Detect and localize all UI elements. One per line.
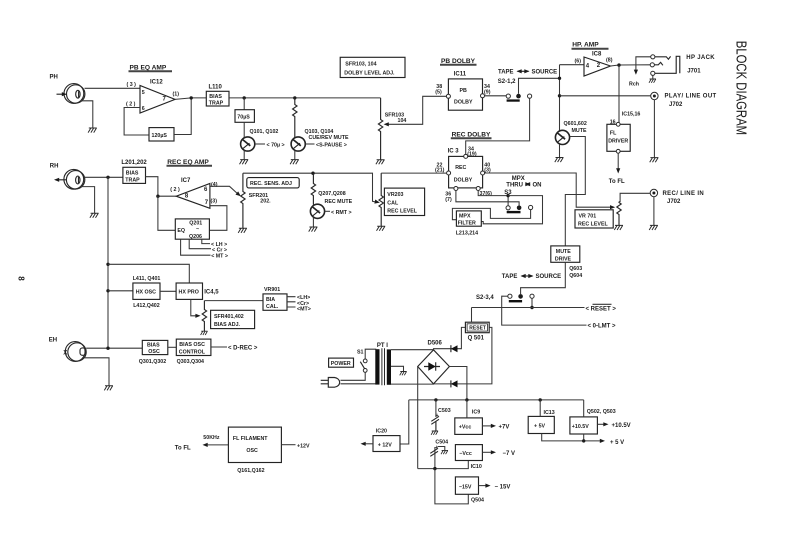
wire PT1 secondary center tap to ground — [391, 366, 404, 371]
transistor Q601 — [555, 130, 569, 144]
wire pin37 junction to MPX filter right — [481, 196, 542, 224]
svg-text:THRU: THRU — [506, 182, 523, 188]
svg-text:L411, Q401: L411, Q401 — [133, 276, 161, 282]
wire EH head to bias osc — [86, 347, 142, 349]
svg-text:< 70µ >: < 70µ > — [267, 143, 285, 149]
switch S1 — [363, 359, 367, 363]
transistor Q103 — [291, 137, 305, 151]
wire IC7 pin6 output to SFR201 wiper — [210, 186, 238, 193]
svg-text:BIAS OSC: BIAS OSC — [179, 342, 205, 348]
svg-text:OSC: OSC — [246, 448, 258, 454]
wire +10.5V bottom to +5V line — [583, 434, 585, 441]
svg-text:CAL.: CAL. — [266, 304, 279, 310]
wire to -15V regulator — [435, 469, 468, 504]
node IC9 — [465, 398, 468, 401]
svg-text:TRAP: TRAP — [209, 100, 224, 106]
svg-text:HX PRO: HX PRO — [179, 290, 199, 296]
svg-text:+10.5V: +10.5V — [612, 423, 631, 429]
potentiometer SFR401 — [202, 301, 206, 331]
svg-text:REC: REC — [455, 165, 466, 171]
ground under PLAY jack — [650, 158, 659, 163]
svg-text:+: + — [436, 413, 439, 419]
pin 36 IC3 — [454, 187, 458, 191]
svg-text:(19): (19) — [467, 151, 477, 157]
svg-text:( 2 ): ( 2 ) — [126, 102, 136, 108]
switch S2-1,2 — [506, 94, 510, 98]
svg-text:CUE/REV MUTE: CUE/REV MUTE — [309, 135, 349, 141]
HP jack ring lever — [655, 62, 663, 65]
svg-text:REC DOLBY: REC DOLBY — [452, 131, 491, 138]
ground under Q103 — [290, 160, 299, 165]
svg-text:< 0-LMT >: < 0-LMT > — [588, 324, 617, 330]
wire PT1 secondary top to bridge — [391, 349, 434, 351]
capacitor 120uS box — [149, 128, 174, 141]
transistor Q207 — [310, 204, 324, 218]
svg-text:−15V: −15V — [459, 484, 472, 490]
svg-text:IC13: IC13 — [544, 410, 555, 416]
svg-text:IC4,5: IC4,5 — [204, 289, 219, 295]
IC U IC11 PB DOLBY box — [448, 79, 482, 110]
svg-text:MUTE: MUTE — [572, 128, 587, 134]
svg-text:8: 8 — [17, 276, 26, 281]
wire PH head to IC12 input — [85, 87, 141, 89]
svg-text:Q601,602: Q601,602 — [564, 121, 587, 127]
ground under C503 — [431, 431, 438, 435]
wire Q103 output — [305, 143, 314, 145]
svg-text:TAPE: TAPE — [498, 70, 514, 76]
ground under HP jack — [652, 75, 654, 78]
svg-text:L213,214: L213,214 — [456, 231, 478, 237]
svg-text:PT I: PT I — [377, 343, 388, 349]
svg-text:Rch: Rch — [629, 81, 639, 87]
transformer PT1 — [375, 349, 379, 384]
diode inside bridge — [424, 362, 440, 370]
wire REC DOLBY pin40 to VR701 wiper — [485, 173, 612, 207]
svg-text:MUTE: MUTE — [556, 249, 571, 255]
IC MUTE DRIVE box — [551, 246, 580, 262]
wire IC12 inverting input feedback — [124, 108, 149, 136]
negative bus wire — [418, 461, 469, 469]
arrow +12V out — [365, 443, 374, 445]
svg-text:~: ~ — [196, 227, 199, 233]
arrow -15V — [479, 485, 487, 487]
svg-text:(7): (7) — [445, 197, 452, 203]
ground PT1 center tap — [400, 372, 407, 376]
svg-text:DRIVE: DRIVE — [555, 256, 572, 262]
svg-text:BIAS: BIAS — [126, 170, 139, 176]
node RH junction — [106, 176, 109, 179]
svg-text:MPX: MPX — [512, 176, 525, 182]
wire Q207 emitter to ground — [312, 218, 314, 227]
note box REC. SENS. ADJ — [247, 178, 299, 188]
wire bias trap to IC7 input — [146, 177, 177, 197]
svg-text:+ 5 V: + 5 V — [610, 440, 624, 446]
note box VR701 REC LEVEL — [575, 210, 613, 228]
svg-text:IC8: IC8 — [592, 52, 602, 58]
HP jack tip lever — [655, 56, 671, 59]
wire RH head to bias trap — [84, 176, 123, 178]
svg-text:EH: EH — [49, 337, 57, 343]
svg-text:J701: J701 — [687, 68, 701, 74]
wire IC12 output — [175, 98, 206, 100]
IC U FL DRIVER box — [607, 124, 630, 151]
wire SFR401 top to BIA CAL — [204, 300, 263, 302]
svg-text:Q303,Q304: Q303,Q304 — [177, 359, 204, 365]
ground under EH head — [104, 386, 113, 391]
bridge rectifier D506 — [418, 350, 450, 384]
svg-text:Q603: Q603 — [569, 266, 582, 272]
note box SFR103,104 DOLBY LEVEL ADJ. — [340, 57, 405, 77]
connector REC/LINE IN jack — [650, 189, 657, 196]
wire EH head to ground — [85, 358, 110, 386]
arrow +10.5V — [597, 423, 604, 425]
AC plug — [321, 378, 340, 388]
svg-text:HP JACK: HP JACK — [686, 55, 715, 61]
svg-text:L110: L110 — [209, 85, 223, 91]
wire bridge right vertex to rail — [449, 367, 467, 400]
oscillator FL FILAMENT OSC box — [228, 427, 281, 462]
svg-text:5: 5 — [142, 90, 145, 96]
wire control to D-REC — [211, 346, 227, 348]
svg-text:70µS: 70µS — [237, 115, 250, 121]
svg-text:HP. AMP: HP. AMP — [572, 42, 599, 49]
wire node to EQ box — [158, 196, 175, 230]
wire S1 to PT1 primary top — [365, 349, 376, 359]
svg-text:−7 V: −7 V — [503, 451, 516, 457]
wire REC bus left segment — [243, 173, 377, 202]
svg-text:Q101, Q102: Q101, Q102 — [250, 129, 279, 135]
arrow To FL — [617, 153, 619, 169]
wire VR203 top to REC DOLBY pin22 — [381, 172, 446, 174]
wire Q101 emitter to ground — [243, 151, 245, 160]
svg-text:< MT >: < MT > — [211, 254, 228, 260]
resistor above Q207 — [311, 173, 315, 204]
HP jack sleeve — [655, 56, 680, 73]
wire S2-1,2 right contact to REC DOLBY pin34 — [466, 98, 530, 154]
svg-text:SFR401,402: SFR401,402 — [214, 314, 244, 320]
arrow -7V — [482, 451, 492, 453]
svg-text:VR901: VR901 — [264, 287, 280, 293]
wire to PLAY/LINE OUT — [560, 95, 651, 97]
svg-text:BLOCK DIAGRAM: BLOCK DIAGRAM — [733, 41, 750, 135]
pin 37 IC3 — [476, 187, 480, 191]
pin 22 IC3 — [447, 171, 451, 175]
wire FL filament +12V — [281, 444, 295, 446]
svg-text:( 2 ): ( 2 ) — [170, 187, 180, 193]
wire Q103 emitter to ground — [294, 151, 296, 160]
svg-text:DOLBY: DOLBY — [454, 100, 473, 106]
wire Q207 output — [325, 210, 330, 212]
svg-text:POWER: POWER — [331, 361, 351, 367]
svg-text:Q502, Q503: Q502, Q503 — [587, 409, 616, 415]
ground under Q101 — [240, 160, 249, 165]
svg-text:(3): (3) — [211, 198, 218, 204]
wire HX OSC to HX PRO — [160, 290, 176, 292]
oscillator HX OSC box — [133, 283, 160, 299]
wire rail to +Vcc — [466, 400, 468, 418]
svg-text:BIAS ADJ.: BIAS ADJ. — [214, 322, 241, 328]
svg-text:BIA: BIA — [266, 297, 275, 303]
wire MUTE DRIVE to S2-3,4 pole — [521, 262, 566, 294]
node HX OSC branch — [106, 289, 109, 292]
potentiometer SFR103 — [378, 98, 382, 160]
svg-text:IC20: IC20 — [376, 429, 387, 435]
svg-text:FL FILAMENT: FL FILAMENT — [233, 436, 268, 442]
svg-text:DOLBY LEVEL ADJ.: DOLBY LEVEL ADJ. — [344, 70, 395, 76]
wire pin37 to S3 left contact — [478, 191, 508, 206]
svg-text:TRAP: TRAP — [125, 177, 140, 183]
ground under SFR201 — [238, 228, 247, 233]
node Q103 branch — [293, 96, 296, 99]
svg-text:L412,Q402: L412,Q402 — [133, 303, 160, 309]
wire 70uS to Q101 — [243, 122, 245, 137]
regulator +Vcc box — [455, 418, 483, 435]
wire vertical left bus — [107, 177, 109, 348]
svg-text:Q 501: Q 501 — [468, 336, 485, 342]
node play out branch — [558, 94, 561, 97]
svg-text:(5): (5) — [435, 90, 442, 96]
wire PH head to ground — [81, 101, 93, 128]
svg-text:DOLBY: DOLBY — [454, 178, 473, 184]
wire L110 output bus to SFR103 — [229, 97, 381, 99]
svg-text:Q604: Q604 — [569, 273, 582, 279]
wire plug to PT1 primary bottom — [341, 383, 377, 385]
wire pin34 to S2-1,2 — [485, 95, 507, 97]
label POWER — [329, 358, 354, 367]
potentiometer VR203 — [379, 173, 383, 226]
svg-text:+ 5V: + 5V — [534, 424, 546, 430]
wire BIAS OSC to control — [168, 346, 177, 348]
wire IC8 output — [611, 65, 653, 66]
svg-text:TAPE: TAPE — [502, 274, 518, 280]
regulator +5V box — [528, 416, 554, 433]
svg-text:IC15,16: IC15,16 — [622, 111, 641, 117]
wire Q101 output — [255, 143, 265, 145]
wire node to FL DRIVER — [618, 65, 620, 124]
node IC13 — [539, 398, 542, 401]
diode top D506a — [434, 327, 466, 349]
wire S2-1,2 pole to HP amp node — [519, 78, 560, 94]
svg-text:PH: PH — [50, 75, 58, 81]
ground under SFR103 — [376, 160, 385, 165]
wire to 70uS box — [243, 98, 245, 110]
svg-text:< RESET >: < RESET > — [586, 307, 617, 313]
wire pin36 to S3 pole — [456, 191, 519, 206]
svg-text:+ 12V: + 12V — [378, 442, 392, 448]
potentiometer VR701 — [617, 202, 621, 226]
svg-text:PB: PB — [460, 88, 468, 94]
svg-text:HX OSC: HX OSC — [136, 290, 156, 296]
svg-text:IC7: IC7 — [181, 178, 191, 184]
svg-text:X: X — [63, 351, 67, 357]
wire PT1 secondary bottom to bridge — [391, 383, 434, 385]
ground under Q601 — [555, 158, 564, 163]
svg-text:120µS: 120µS — [152, 133, 168, 139]
wiper wire PB DOLBY pin38 to SFR103 — [387, 96, 447, 124]
svg-text:BIAS: BIAS — [209, 94, 222, 100]
svg-text:< Cr >: < Cr > — [212, 247, 227, 253]
regulator -15V box — [455, 477, 478, 494]
EQ box Q201-Q206 — [175, 219, 209, 239]
svg-text:PLAY/ LINE OUT: PLAY/ LINE OUT — [665, 94, 717, 100]
node HX branch — [106, 263, 109, 266]
pin 34 IC3 — [464, 154, 468, 158]
svg-text:< RMT >: < RMT > — [331, 210, 352, 216]
switch S3 — [506, 206, 510, 210]
IC HX PRO box — [176, 283, 202, 299]
wire REC/LINE IN to ground — [653, 197, 655, 226]
svg-text:S2-1,2: S2-1,2 — [498, 79, 516, 85]
arrow FL filament out — [207, 444, 229, 446]
wire RESET box top to reset line — [471, 308, 473, 323]
svg-text:REC LEVEL: REC LEVEL — [578, 222, 608, 228]
svg-text:IC10: IC10 — [471, 464, 482, 470]
arrow into PH head — [57, 93, 64, 95]
wire REC/LINE IN to VR701 top — [619, 193, 650, 201]
regulator +12V box — [373, 436, 400, 452]
svg-text:(1): (1) — [173, 91, 180, 97]
wire EQ MT output — [181, 239, 211, 255]
svg-text:Q206: Q206 — [189, 234, 202, 240]
svg-text:+7V: +7V — [499, 425, 510, 431]
svg-text:(21): (21) — [435, 168, 445, 174]
wire vertical node bus — [559, 65, 561, 131]
wire RESET line — [472, 307, 585, 309]
svg-text:Q207,Q208: Q207,Q208 — [318, 191, 345, 197]
wire EQ Cr output — [189, 239, 211, 249]
svg-text:EQ: EQ — [177, 228, 185, 234]
ground under VR203 — [377, 226, 386, 231]
power rail — [400, 400, 584, 444]
svg-text:S1: S1 — [357, 349, 364, 355]
node C503 — [434, 398, 437, 401]
svg-text:FL: FL — [610, 131, 617, 137]
svg-text:(6): (6) — [575, 58, 582, 64]
wire IC7 pin7 output to EQ box — [209, 206, 227, 231]
regulator -Vcc box — [455, 445, 482, 461]
svg-text:CONTROL: CONTROL — [179, 349, 206, 355]
wire HX PRO to SFR401 wiper — [191, 299, 197, 315]
wire plug to S1 — [341, 372, 366, 380]
svg-text:50KHz: 50KHz — [203, 435, 220, 441]
ground under PH head — [88, 128, 97, 133]
filter MPX FILTER box — [456, 211, 481, 226]
node 70uS branch — [243, 96, 246, 99]
svg-text:BIAS: BIAS — [147, 343, 160, 349]
svg-text:<S-PAUSE >: <S-PAUSE > — [316, 143, 347, 149]
svg-text:CAL: CAL — [387, 200, 399, 206]
svg-text:+: + — [435, 445, 438, 451]
svg-text:RH: RH — [50, 163, 59, 169]
svg-text:6: 6 — [142, 106, 145, 112]
wire feedback from output to 120uS — [174, 98, 191, 135]
capacitor 70uS box — [235, 110, 254, 123]
svg-text:( 3 ): ( 3 ) — [127, 82, 137, 88]
ground under Q207 — [309, 227, 318, 232]
ground right of C504 — [441, 450, 448, 454]
ground under RH head — [90, 213, 99, 218]
potentiometer SFR201 — [241, 173, 245, 228]
arrow out of RH head — [58, 179, 67, 181]
svg-text:REC MUTE: REC MUTE — [325, 199, 353, 205]
arrow +7V — [482, 425, 492, 427]
wire +5V output — [542, 434, 601, 441]
svg-text:+12V: +12V — [297, 443, 310, 449]
svg-text:+10.5V: +10.5V — [572, 424, 589, 430]
svg-text:PB DOLBY: PB DOLBY — [441, 58, 476, 65]
svg-text:REC LEVEL: REC LEVEL — [387, 209, 417, 215]
pin 34 — [481, 94, 485, 98]
node S3 — [506, 194, 509, 197]
wire HP jack tip to Rch arrow — [636, 57, 651, 71]
node HP out — [617, 63, 620, 66]
node IC12 output junction — [190, 96, 193, 99]
svg-text:− 15V: − 15V — [495, 484, 511, 490]
ground under REC jack — [649, 225, 658, 230]
wire S3 right contact to MPX filter left — [452, 208, 530, 219]
node Q207 branch — [311, 172, 314, 175]
svg-text:REC/ LINE IN: REC/ LINE IN — [663, 191, 705, 197]
wire bus to HX PRO top — [108, 264, 189, 283]
svg-text:SOURCE: SOURCE — [532, 70, 558, 76]
wire EQ LH output — [202, 239, 210, 243]
wire Q601 emitter to ground — [559, 144, 561, 157]
svg-text:Q504: Q504 — [471, 497, 484, 503]
svg-text:SFR103, 104: SFR103, 104 — [345, 61, 376, 67]
wire rail to +5V — [539, 400, 541, 417]
svg-text:SOURCE: SOURCE — [536, 274, 562, 280]
svg-text:(9): (9) — [484, 90, 491, 96]
inductor L110 BIAS TRAP box — [206, 91, 229, 106]
svg-text:Q301,Q302: Q301,Q302 — [139, 359, 166, 365]
svg-text:DRIVER: DRIVER — [608, 139, 628, 145]
wire PLAY jack to ground — [653, 100, 655, 158]
note box VR203 CAL REC LEVEL — [384, 188, 424, 215]
svg-text:S2-3,4: S2-3,4 — [476, 295, 494, 301]
svg-text:J702: J702 — [669, 102, 683, 108]
transistor Q101 — [241, 137, 255, 151]
switch S2-3,4 — [504, 295, 508, 297]
svg-text:To FL: To FL — [175, 445, 191, 451]
capacitor C503 — [435, 400, 437, 417]
svg-text:To FL: To FL — [609, 179, 625, 185]
svg-text:Q161,Q162: Q161,Q162 — [237, 468, 264, 474]
node S2 to bus — [558, 77, 561, 80]
erase head EH — [65, 342, 86, 362]
note box SFR401,402 BIAS ADJ. — [211, 310, 255, 328]
svg-text:J702: J702 — [667, 199, 681, 205]
node IC7 input junction — [156, 195, 159, 198]
svg-text:REC. SENS. ADJ: REC. SENS. ADJ — [250, 181, 292, 187]
connector PLAY/LINE OUT jack — [651, 92, 658, 99]
svg-text:IC12: IC12 — [150, 80, 163, 86]
playback head PH — [64, 84, 85, 104]
ground under SFR401 — [201, 331, 208, 335]
svg-text:L201,202: L201,202 — [121, 160, 147, 166]
op-amp U IC8 — [584, 57, 611, 76]
svg-text:104: 104 — [398, 118, 407, 124]
svg-text:RESET: RESET — [469, 326, 486, 332]
svg-text:VR 701: VR 701 — [579, 213, 597, 219]
regulator +10.5V box — [570, 417, 598, 434]
svg-text:ON: ON — [533, 182, 542, 188]
node EH junction — [106, 347, 109, 350]
svg-text:+Vcc: +Vcc — [459, 425, 472, 431]
svg-text:(4): (4) — [211, 182, 218, 188]
capacitor C504 — [434, 447, 436, 469]
svg-text:VR203: VR203 — [387, 192, 403, 198]
pin 40 IC3 — [481, 171, 485, 175]
